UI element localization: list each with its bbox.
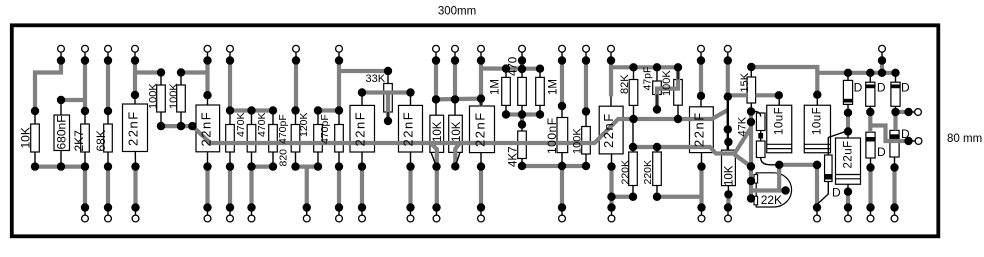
junction <box>81 107 89 115</box>
lead 47K chain out curve <box>761 158 780 165</box>
capacitor 22nF #3 <box>350 105 375 152</box>
lead R10K top <box>34 111 36 124</box>
junction <box>226 162 234 170</box>
lead to top pad <box>454 52 456 60</box>
svg-text:100K: 100K <box>148 83 160 109</box>
svg-text:D: D <box>901 81 910 95</box>
diode D1 <box>843 80 852 104</box>
junction <box>844 203 852 211</box>
lead to top pad <box>295 52 297 60</box>
wire diode870 to out pad <box>870 126 908 142</box>
wire node436-node481 <box>436 96 481 101</box>
junction <box>31 162 39 170</box>
lead D829 diode top <box>828 131 847 155</box>
junction <box>518 120 526 128</box>
lead to top pad <box>521 52 523 60</box>
svg-text:82K: 82K <box>619 74 631 94</box>
lead C680nF bottom <box>60 151 62 167</box>
junction <box>607 56 615 64</box>
junction <box>358 203 366 211</box>
lead D870 top <box>869 73 871 82</box>
svg-text:22K: 22K <box>761 193 782 207</box>
junction <box>558 203 566 211</box>
junction <box>291 162 299 170</box>
svg-text:10uF: 10uF <box>774 107 786 135</box>
lead to bottom pad <box>480 208 482 216</box>
junction <box>131 203 139 211</box>
diode D2 <box>866 82 875 106</box>
junction <box>558 162 566 170</box>
junction <box>724 190 732 198</box>
lead 220K b bottom <box>656 186 658 197</box>
resistor 120K <box>314 125 323 153</box>
svg-text:820: 820 <box>278 149 290 167</box>
junction <box>866 203 874 211</box>
wire node727 to C10uF a <box>728 93 747 97</box>
junction <box>813 91 821 99</box>
lead 220K a top <box>632 119 634 152</box>
junction <box>314 162 322 170</box>
junction <box>558 56 566 64</box>
pad top <box>879 45 886 52</box>
lead to bottom pad <box>251 208 253 216</box>
junction <box>629 143 637 151</box>
pad out a <box>915 109 922 116</box>
transistor Q1 <box>756 173 791 207</box>
svg-text:680nF: 680nF <box>55 115 69 149</box>
junction <box>866 108 874 116</box>
pad bottom <box>608 215 615 222</box>
wire 10K boxes drop b <box>455 143 460 167</box>
wire pad727 down <box>726 61 730 97</box>
lead to top pad <box>881 52 883 60</box>
lead C470pF b top <box>338 111 340 125</box>
lead 47K chain <box>760 131 762 142</box>
junction <box>518 162 526 170</box>
wire lower link to Q1 area <box>634 147 735 154</box>
lead to top pad <box>338 52 340 60</box>
junction <box>607 203 615 211</box>
lead to bottom pad <box>84 208 86 216</box>
lead C100nF top <box>561 106 563 118</box>
wire pad522 down <box>520 61 524 70</box>
junction <box>724 203 732 211</box>
wire R33K bottom drop <box>386 93 390 122</box>
junction <box>653 193 661 201</box>
resistor 470K #1 <box>226 125 235 153</box>
junction <box>131 91 139 99</box>
junction <box>502 110 510 118</box>
lead C22nF d top <box>410 93 412 106</box>
lead to bottom pad <box>207 208 209 216</box>
svg-text:22nF: 22nF <box>473 111 488 147</box>
junction <box>247 203 255 211</box>
junction <box>226 56 234 64</box>
wire diode870 down <box>868 112 872 132</box>
junction <box>536 110 544 118</box>
lead to top pad <box>229 52 231 60</box>
wire diode896 to out pad <box>896 110 909 114</box>
junction <box>629 63 637 71</box>
capacitor 10uF #1 <box>767 105 792 153</box>
junction <box>451 162 459 170</box>
lead to bottom pad <box>338 208 340 216</box>
wire drop 894 <box>892 168 896 208</box>
resistor 10K <box>31 124 40 152</box>
lead D896 bot <box>895 106 897 112</box>
pad top <box>583 45 590 52</box>
junction <box>891 69 899 77</box>
lead R10K box b bot <box>455 152 460 166</box>
wire branch to diode row <box>817 71 896 75</box>
svg-text:300mm: 300mm <box>438 6 476 18</box>
junction <box>518 110 526 118</box>
lead C22nF a top <box>134 95 136 104</box>
lead to bottom pad <box>436 208 438 216</box>
junction <box>582 107 590 115</box>
svg-text:470: 470 <box>508 57 520 76</box>
junction <box>104 56 112 64</box>
lead R1M b bottom <box>539 105 541 114</box>
junction <box>358 162 366 170</box>
capacitor 22nF #2 <box>196 105 220 152</box>
junction <box>57 162 65 170</box>
svg-text:470K: 470K <box>235 112 247 137</box>
wire pad882 down <box>880 61 884 73</box>
wire pad207 down <box>205 61 209 96</box>
lead to bottom pad <box>361 208 363 216</box>
diode D5 <box>890 130 899 157</box>
lead R100K b bottom <box>180 112 182 126</box>
svg-text:470K: 470K <box>256 112 268 137</box>
lead R100K c bottom <box>585 154 587 166</box>
junction <box>226 106 234 114</box>
junction <box>269 106 277 114</box>
wire R15K to C10uF b and diode <box>751 67 817 95</box>
lead R10K box b <box>454 99 456 115</box>
junction <box>891 108 899 116</box>
junction <box>653 143 661 151</box>
junction <box>247 162 255 170</box>
svg-text:47K: 47K <box>737 116 749 136</box>
svg-text:22nF: 22nF <box>692 111 707 147</box>
wire bottom rail left <box>35 165 85 169</box>
lead to top pad <box>60 52 62 60</box>
resistor 10K box #1 <box>430 115 444 152</box>
junction <box>878 69 886 77</box>
svg-text:22nF: 22nF <box>199 111 214 147</box>
resistor 820 <box>291 125 300 153</box>
resistor 1M #1 <box>502 77 511 105</box>
pad top <box>478 45 485 52</box>
wire node339 to R 33K top <box>339 69 388 73</box>
lead D870 lower bot <box>870 158 872 168</box>
junction <box>157 122 165 130</box>
junction <box>335 106 343 114</box>
junction <box>335 203 343 211</box>
wire 4K7 row bottoms <box>522 164 586 168</box>
wire diag up to node751 <box>735 128 751 154</box>
junction <box>335 162 343 170</box>
junction <box>747 194 755 202</box>
junction <box>518 65 526 73</box>
lead R470K b bottom <box>251 152 253 167</box>
svg-text:D: D <box>832 186 841 200</box>
junction <box>878 56 886 64</box>
pad top <box>519 45 526 52</box>
resistor 100K #4 <box>674 80 683 106</box>
svg-text:10uF: 10uF <box>812 107 824 135</box>
lead R120K top <box>317 111 319 125</box>
lead C470pF b bottom <box>338 152 340 167</box>
wire drop to pad <box>228 167 232 208</box>
lead to bottom pad <box>107 208 109 216</box>
svg-text:100K: 100K <box>572 128 584 154</box>
resistor 470K #2 <box>247 125 256 153</box>
junction <box>844 188 852 196</box>
lead D848 top <box>847 73 849 81</box>
junction <box>131 56 139 64</box>
wire drop to pad <box>337 167 341 208</box>
lead R15K bottom <box>750 103 752 112</box>
wire diode896 down <box>893 112 897 130</box>
pad top <box>698 45 705 52</box>
pad top <box>82 45 89 52</box>
junction <box>536 65 544 73</box>
bus main <box>192 110 727 143</box>
lead R100K a bottom <box>160 112 162 126</box>
lead 220K b top <box>656 147 658 152</box>
lead C10uF a <box>778 95 780 105</box>
resistor 100K #1 <box>157 85 166 112</box>
wire 22K out drop <box>777 165 781 191</box>
wire node481 to 1M/470 row <box>481 66 540 70</box>
junction <box>406 203 414 211</box>
junction <box>31 107 39 115</box>
wire transistor base row <box>751 188 786 192</box>
lead C22nF e top <box>480 99 482 106</box>
junction <box>406 88 414 96</box>
pad bottom <box>105 215 112 222</box>
pad bottom <box>336 215 343 222</box>
wire out row to pad817 <box>779 163 817 167</box>
lead R4K7 bottom <box>521 159 523 167</box>
lead R10K box a bot <box>431 152 437 166</box>
junction <box>697 92 705 100</box>
svg-text:22nF: 22nF <box>353 111 368 147</box>
svg-text:220K: 220K <box>619 160 631 185</box>
lead to bottom pad <box>847 208 849 216</box>
pad top <box>336 45 343 52</box>
pad bottom <box>725 215 732 222</box>
capacitor 470pF #1 <box>269 125 278 153</box>
resistor 47K <box>756 113 765 131</box>
resistor 15K <box>747 77 756 103</box>
junction <box>724 138 732 146</box>
svg-text:68K: 68K <box>94 130 108 151</box>
lead to top pad <box>610 52 612 60</box>
wire pad230 down <box>228 61 232 111</box>
lead to bottom pad <box>410 208 412 216</box>
junction <box>724 125 732 133</box>
svg-text:D: D <box>877 145 886 159</box>
lead R33K bottom <box>387 112 389 121</box>
lead D829 diode bottom <box>817 182 828 205</box>
lead D848 bot <box>847 104 849 112</box>
junction <box>81 203 89 211</box>
pad bottom <box>82 215 89 222</box>
junction <box>432 203 440 211</box>
junction <box>775 161 783 169</box>
junction <box>203 56 211 64</box>
svg-text:22nF: 22nF <box>601 112 616 148</box>
wire drop 848 <box>846 192 850 208</box>
junction <box>384 117 392 125</box>
lead to top pad <box>480 52 482 60</box>
wire 10K box bottom drop <box>726 194 730 207</box>
lead to top pad <box>107 52 109 60</box>
pad top <box>724 45 731 52</box>
lead R120K bottom <box>317 152 319 167</box>
svg-text:22uF: 22uF <box>843 140 855 168</box>
lead to bottom pad <box>306 208 308 216</box>
lead R82K bottom <box>633 105 635 119</box>
wire pad61 to R 10K <box>35 61 61 112</box>
capacitor 22nF #6 <box>599 106 623 154</box>
pad top <box>433 45 440 52</box>
lead to bottom pad <box>727 208 729 216</box>
lead to top pad <box>84 52 86 60</box>
wire pad586 to R100K <box>584 61 588 112</box>
wire diag down to node751 <box>735 155 752 167</box>
junction <box>890 203 898 211</box>
svg-text:33K: 33K <box>366 73 386 85</box>
pad top <box>58 45 65 52</box>
lead C100nF bottom <box>561 153 563 166</box>
lead C22nF f top <box>610 96 612 106</box>
pad bottom <box>478 215 485 222</box>
lead R15K top <box>750 67 752 77</box>
lead to top pad <box>561 52 563 60</box>
wire drop 611 <box>609 167 613 208</box>
junction <box>747 162 755 170</box>
lead C22nF f bottom <box>611 154 613 167</box>
capacitor 22nF #1 <box>123 104 148 152</box>
resistor 220K #1 <box>629 152 638 186</box>
svg-text:1M: 1M <box>490 79 502 95</box>
capacitor 100nF <box>557 118 568 153</box>
lead to bottom pad <box>229 208 231 216</box>
junction <box>451 56 459 64</box>
lead C22nF b bottom <box>207 152 209 167</box>
resistor 2K7 <box>81 124 90 152</box>
junction <box>203 91 211 99</box>
lead R470K b top <box>251 111 253 125</box>
pad top <box>204 45 211 52</box>
junction <box>384 67 392 75</box>
junction <box>629 193 637 201</box>
diode D3 <box>891 82 900 106</box>
svg-text:2K7: 2K7 <box>72 130 86 152</box>
wire node727 to C10uF a part2 <box>756 93 779 97</box>
wire drop 701 <box>699 167 703 208</box>
lead C22nF b top <box>207 95 209 105</box>
junction <box>451 95 459 103</box>
wire drop to pad <box>360 167 364 208</box>
junction <box>607 162 615 170</box>
junction <box>177 122 185 130</box>
junction <box>866 69 874 77</box>
junction <box>269 162 277 170</box>
junction <box>813 161 821 169</box>
lead D870 bot <box>869 106 871 112</box>
wire drop to pad <box>83 167 87 208</box>
lead C22uF top <box>847 132 849 139</box>
wire pad339 down <box>337 61 341 111</box>
pad bottom <box>559 215 566 222</box>
lead C22nF g top <box>700 96 702 107</box>
lead to top pad <box>585 52 587 60</box>
junction <box>406 162 414 170</box>
capacitor 470pF #2 <box>335 125 344 153</box>
junction <box>697 56 705 64</box>
lead R1M a bottom <box>505 105 507 114</box>
resistor chain lower <box>756 141 765 158</box>
junction <box>653 105 661 113</box>
lead C22uF bot <box>847 184 849 191</box>
svg-text:22nF: 22nF <box>126 110 141 146</box>
lead R470 top <box>521 69 523 77</box>
pad bottom <box>407 215 414 222</box>
capacitor 22nF #5 <box>470 106 495 153</box>
junction <box>747 63 755 71</box>
junction <box>477 94 485 102</box>
lead 10K box top <box>727 142 729 150</box>
junction <box>747 177 755 185</box>
svg-text:470pF: 470pF <box>277 114 289 144</box>
lead to top pad <box>435 52 437 60</box>
wire drop to pad <box>205 167 209 208</box>
wire drop to pad <box>408 167 412 208</box>
pad bottom <box>248 215 255 222</box>
junction <box>724 93 732 101</box>
wire 220K a bottom link <box>612 195 634 199</box>
pad top <box>227 45 234 52</box>
junction <box>203 162 211 170</box>
wire drop to pad <box>249 167 253 208</box>
capacitor 47pF <box>653 81 662 95</box>
lead C10uF b <box>816 95 818 106</box>
wire drop mid pair <box>305 167 309 208</box>
pad top <box>452 45 459 52</box>
wire node135 to R 100K a <box>135 70 161 74</box>
wire 10K boxes drop a <box>430 143 437 208</box>
svg-text:4K7: 4K7 <box>508 147 520 167</box>
lead 220K a bottom <box>632 186 634 197</box>
lead R10K box a <box>435 99 437 115</box>
resistor 10K box #2 <box>449 115 463 152</box>
wire pad455 down <box>453 61 457 100</box>
junction <box>57 96 65 104</box>
lead R100K d top <box>677 67 679 79</box>
junction <box>890 163 898 171</box>
pad top <box>105 45 112 52</box>
pad top <box>608 45 615 52</box>
junction <box>335 56 343 64</box>
lead C47pF top <box>656 67 658 81</box>
lead R68K top <box>107 111 109 124</box>
svg-text:100K: 100K <box>661 70 673 96</box>
